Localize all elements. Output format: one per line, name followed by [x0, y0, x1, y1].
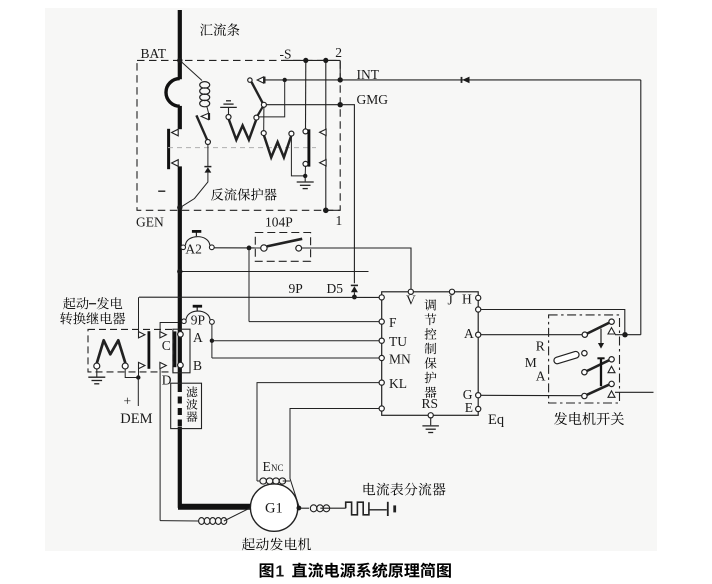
diode cathode bar	[204, 166, 211, 168]
wire F branch vertical	[248, 248, 250, 322]
wire 9P line	[139, 296, 379, 298]
pin TU	[379, 338, 384, 343]
terminal circle A1	[226, 115, 231, 120]
wire BAT to relay coil	[180, 60, 202, 80]
diode D5 cathode bar	[351, 284, 358, 286]
starter series coil	[160, 520, 199, 522]
busbar 汇流条 top segment	[178, 10, 182, 79]
switch SW1 spring stub with arrow	[600, 329, 602, 343]
wire P6 to ENC coil right	[290, 409, 379, 507]
pin B circle on busbar	[178, 362, 184, 368]
breaker A2 right terminal	[209, 245, 214, 250]
switch SW2 blade	[587, 360, 609, 371]
svg-text:GEN: GEN	[136, 215, 164, 230]
switch SW3 throw triangle	[608, 391, 615, 397]
pin P7	[476, 307, 481, 312]
switch operating lever	[553, 351, 580, 365]
wire A2 to 104P	[214, 247, 261, 249]
node switch junction	[622, 332, 627, 337]
label 起动-发电	[63, 297, 75, 309]
svg-text:J: J	[448, 292, 453, 307]
wire 9P breaker to TU MN	[211, 324, 213, 358]
breaker A2 handle	[195, 232, 197, 236]
wire 104P to V pin	[302, 248, 411, 289]
switch pivot circle2	[261, 102, 266, 107]
svg-text:9P: 9P	[191, 313, 205, 328]
label 滤波器 vertical	[186, 387, 197, 398]
wire to MN pin	[212, 357, 379, 359]
breaker 9P dome arc	[186, 311, 210, 320]
label 调节控制保护器 vertical	[425, 299, 437, 310]
node INT branch junction	[283, 78, 287, 82]
wire INT feedback top	[340, 79, 641, 81]
pin G	[476, 393, 481, 398]
104P blade	[267, 239, 302, 247]
pin J	[449, 289, 454, 294]
svg-text:B: B	[193, 358, 202, 373]
svg-text:MN: MN	[389, 351, 411, 366]
wire SW3 output	[615, 391, 654, 393]
diode on INT line triangle	[462, 77, 469, 84]
wire pivot2 to GMG line	[266, 104, 340, 106]
svg-text:A2: A2	[185, 241, 202, 256]
battery contactor moving bar	[167, 129, 170, 169]
node TU junction	[210, 339, 214, 343]
wire C arrow to 9P line	[138, 297, 140, 331]
switch SW2 throw circle	[609, 357, 614, 362]
battery contactor fixed contact arrow bottom	[172, 160, 179, 167]
busbar fuse arc bulge	[166, 79, 180, 107]
switch SW3 blade	[587, 385, 609, 395]
node bus stub junction	[177, 269, 182, 274]
label 起动发电机	[242, 538, 255, 551]
node ground junction	[303, 174, 307, 178]
switch SW3 throw circle	[609, 381, 614, 386]
pin MN	[379, 355, 384, 360]
reverse current protector enclosure 反流保护器	[137, 60, 340, 210]
wire junction down to B1	[259, 80, 285, 117]
svg-text:104P: 104P	[265, 215, 293, 230]
wire D1 to ground junction	[291, 136, 305, 176]
svg-text:R: R	[536, 338, 545, 353]
blade B1 to pivot	[258, 107, 263, 116]
pin E	[476, 406, 481, 411]
svg-text:V: V	[406, 293, 416, 308]
svg-text:-S: -S	[280, 47, 292, 62]
9P connector contact arrow C row	[160, 332, 166, 338]
switch link bar	[600, 358, 602, 386]
ground under RS	[430, 418, 432, 425]
svg-text:RS: RS	[422, 396, 439, 411]
label 汇流条	[200, 24, 213, 36]
switch SW2 moving contact	[582, 370, 587, 375]
resistor W1	[229, 119, 256, 139]
contact bridge bar	[307, 129, 310, 166]
node GMG	[338, 102, 343, 107]
breaker A2 dome arc	[185, 237, 210, 246]
battery long plate	[387, 502, 389, 516]
contact circle top	[303, 129, 308, 134]
label 电流表分流器	[364, 483, 376, 495]
fixed arrow contact upper	[320, 129, 327, 136]
pin RS bottom	[428, 413, 433, 418]
svg-text:F: F	[389, 315, 397, 330]
node terminal 1	[323, 208, 329, 214]
node terminal 2	[323, 58, 328, 63]
generator switch enclosure 发电机开关	[549, 315, 620, 403]
svg-text:BAT: BAT	[141, 46, 167, 61]
switch SW1 throw circle	[609, 319, 614, 324]
pin P6 bottom-left	[379, 406, 384, 411]
switch fixed arrow contact	[257, 77, 263, 83]
pin 9P corner	[379, 295, 384, 300]
busbar dashed segment inside filter	[178, 385, 182, 428]
relay coil M	[97, 340, 125, 363]
node BAT junction	[177, 58, 182, 63]
switch lever pivot circle	[582, 351, 587, 356]
svg-text:2: 2	[335, 45, 342, 60]
switch box 104P	[255, 233, 310, 262]
node D5 junction	[352, 295, 357, 300]
pin F	[379, 319, 384, 324]
svg-text:E: E	[465, 400, 473, 415]
fixed arrow contact lower	[320, 160, 327, 167]
resistor W2	[264, 136, 291, 158]
wire GMG to D5	[340, 105, 354, 284]
wire SW1 triangle to junction	[615, 334, 625, 336]
wire D arrow to DEM junction	[138, 369, 140, 378]
transfer relay enclosure	[88, 329, 173, 372]
ground symbol above resistor	[220, 106, 237, 108]
pin A	[476, 332, 481, 337]
terminal circle D1	[289, 131, 294, 136]
label 发电机开关	[554, 412, 567, 425]
switch SW1 moving contact	[582, 332, 587, 337]
pin A circle on busbar	[178, 332, 184, 338]
svg-text:GMG: GMG	[357, 92, 389, 107]
switch moving tip circle1	[248, 78, 252, 82]
switch fixed contact arrow	[201, 113, 208, 119]
switch SW3 moving contact	[582, 393, 587, 398]
breaker 9P right terminal	[210, 320, 215, 325]
caption 图1 直流电源系统原理简图	[260, 563, 274, 577]
label 反流保护器	[211, 188, 223, 200]
9P connector box	[173, 329, 190, 373]
relay coil (solenoid)	[200, 82, 210, 89]
breaker 9P left terminal	[182, 319, 187, 324]
wire arrow to INT line	[264, 79, 341, 81]
switch SW2 throw triangle	[608, 366, 615, 372]
generator G1 circle	[250, 484, 297, 531]
relay contact bar	[147, 331, 150, 369]
wire G1 output	[299, 507, 309, 509]
pin V	[408, 289, 413, 294]
104P left terminal	[261, 245, 267, 251]
node terminal -S	[303, 58, 308, 63]
diode triangle	[205, 167, 212, 172]
battery contactor fixed contact arrow top	[172, 129, 179, 136]
breaker A2 left terminal	[181, 245, 186, 250]
wire KL to ENC coil left	[257, 383, 379, 481]
9P connector contact arrow D row	[160, 362, 166, 368]
svg-text:DEM: DEM	[120, 411, 152, 427]
pin KL	[379, 380, 384, 385]
relay contact vertical wire -S	[305, 60, 307, 128]
relay contact line 2 vertical	[325, 60, 327, 210]
wire C2 arrow to busbar	[160, 323, 178, 332]
ground under relay coil	[96, 369, 98, 377]
pin H	[476, 295, 481, 300]
battery short plate	[393, 505, 396, 512]
svg-text:E: E	[263, 459, 271, 474]
wire G to switch	[481, 394, 582, 396]
relay contact arrow C row	[139, 332, 145, 338]
busbar segment below contactor	[178, 166, 182, 385]
label minus	[158, 190, 165, 192]
relay contact arrow D row	[139, 362, 145, 368]
mechanical linkage dashed line	[168, 147, 316, 149]
svg-text:D5: D5	[327, 281, 344, 296]
ammeter coil	[310, 505, 317, 512]
104P right terminal	[296, 245, 302, 251]
svg-text:9P: 9P	[289, 281, 303, 296]
filter box 滤波器	[171, 383, 202, 428]
svg-text:1: 1	[336, 213, 343, 228]
wire INT feedback right vertical	[640, 80, 642, 335]
wire diode to GEN node	[181, 173, 208, 208]
svg-text:H: H	[462, 291, 472, 306]
switch SW1 blade	[587, 323, 609, 334]
svg-text:TU: TU	[389, 334, 407, 349]
label 转换继电器	[60, 312, 72, 324]
svg-text:A: A	[536, 369, 546, 384]
node GEN junction	[177, 205, 182, 210]
wire D2 arrow down to starter circuit	[159, 369, 161, 521]
terminal circle C1	[261, 131, 266, 136]
svg-text:M: M	[525, 355, 537, 370]
wire DEM lead	[137, 378, 139, 407]
wire pivot2 down to C1	[263, 107, 265, 130]
svg-text:A: A	[464, 326, 474, 341]
switch blade top	[252, 82, 263, 103]
ground symbol inside protector	[304, 176, 306, 182]
regulator control protector box	[382, 292, 479, 416]
switch SW1 throw triangle	[608, 328, 615, 334]
busbar segment to generator with corner	[180, 427, 251, 506]
ammeter shunt meander	[346, 502, 369, 515]
contact circle bottom	[303, 161, 308, 166]
wire coil to DEM junction	[125, 369, 138, 378]
svg-text:KL: KL	[389, 376, 407, 391]
svg-text:Eq: Eq	[488, 412, 504, 428]
node F-branch junction	[247, 246, 252, 251]
node G1 output junction	[297, 506, 302, 511]
relay coil terminal right	[122, 363, 128, 369]
svg-text:G1: G1	[265, 501, 283, 517]
svg-text:C: C	[162, 338, 171, 353]
ENC excitation coil	[260, 478, 267, 484]
wire coil to switch contact	[207, 106, 209, 113]
wire A to switch	[481, 334, 582, 336]
relay coil terminal left	[94, 363, 100, 369]
svg-text:NC: NC	[271, 463, 284, 473]
diode on INT line bar	[461, 77, 463, 83]
terminal circle B1	[254, 115, 259, 120]
busbar segment below arc	[178, 106, 182, 129]
svg-text:A: A	[193, 330, 203, 345]
breaker 9P handle	[196, 307, 198, 311]
wire P7 to switch junction	[481, 310, 625, 335]
wire to TU pin	[212, 340, 379, 342]
node INT	[338, 77, 343, 82]
diode D5 triangle	[351, 286, 358, 292]
wire contact to ground junction	[304, 166, 306, 176]
wire bus stub line	[180, 271, 369, 273]
wire starter coil to G1	[224, 508, 251, 521]
9P connector bridge bar	[173, 331, 176, 367]
svg-text:1: 1	[276, 563, 285, 580]
switch blade	[196, 115, 207, 140]
wire switch to diode	[207, 145, 209, 167]
node DEM junction	[136, 375, 140, 379]
svg-text:+: +	[124, 393, 132, 408]
switch pivot	[205, 140, 210, 145]
